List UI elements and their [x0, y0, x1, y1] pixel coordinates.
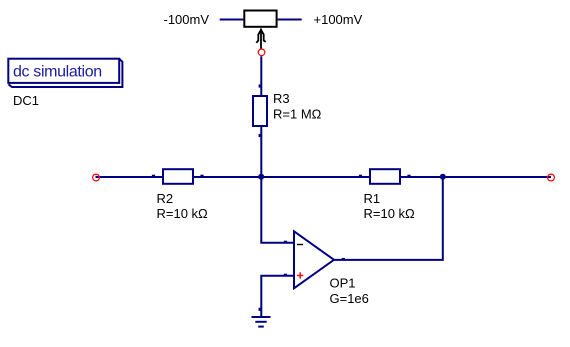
svg-text:dc simulation: dc simulation	[13, 64, 102, 81]
svg-text:G=1e6: G=1e6	[330, 291, 369, 306]
svg-text:R1: R1	[364, 191, 381, 206]
svg-text:R=10 kΩ: R=10 kΩ	[364, 206, 416, 221]
svg-text:OP1: OP1	[330, 275, 356, 290]
svg-text:R=1 MΩ: R=1 MΩ	[273, 106, 322, 121]
svg-text:R2: R2	[157, 191, 174, 206]
svg-text:R=10 kΩ: R=10 kΩ	[157, 206, 209, 221]
svg-text:DC1: DC1	[13, 93, 39, 108]
svg-text:+100mV: +100mV	[314, 12, 363, 27]
svg-text:R3: R3	[273, 91, 290, 106]
svg-text:-100mV: -100mV	[164, 12, 210, 27]
